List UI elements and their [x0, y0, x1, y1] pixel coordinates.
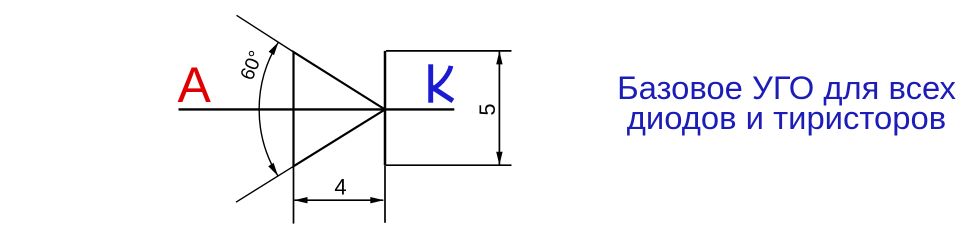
node K cathode label: [431, 64, 453, 102]
svg-text:диодов и тиристоров: диодов и тиристоров: [627, 99, 946, 136]
wire anode-cathode horizontal lead: [179, 108, 455, 110]
diode D1 triangle: [294, 52, 386, 166]
dimension 5 arrow down: [496, 152, 502, 166]
dimension 4 arrow right: [370, 197, 384, 203]
dimension 5 line: [498, 52, 500, 165]
cathode bar: [384, 51, 387, 165]
svg-text:4: 4: [334, 175, 346, 200]
dimension 4 line: [295, 199, 384, 201]
dimension 4 extension line right: [384, 165, 386, 223]
arc arrowhead bottom: [268, 163, 278, 176]
arc arrowhead top: [269, 42, 279, 55]
construction line upper extension: [237, 15, 295, 52]
dimension 5 arrow up: [496, 51, 502, 65]
dimension 5 extension line top: [386, 50, 512, 52]
dimension 4 extension line left: [293, 167, 295, 224]
dimension 5 extension line bottom: [386, 164, 512, 166]
dimension 4 arrow left: [294, 197, 308, 203]
svg-text:А: А: [178, 57, 212, 113]
construction line lower extension: [236, 166, 295, 203]
angle arc 60deg: [259, 42, 278, 176]
svg-text:5: 5: [475, 103, 500, 115]
